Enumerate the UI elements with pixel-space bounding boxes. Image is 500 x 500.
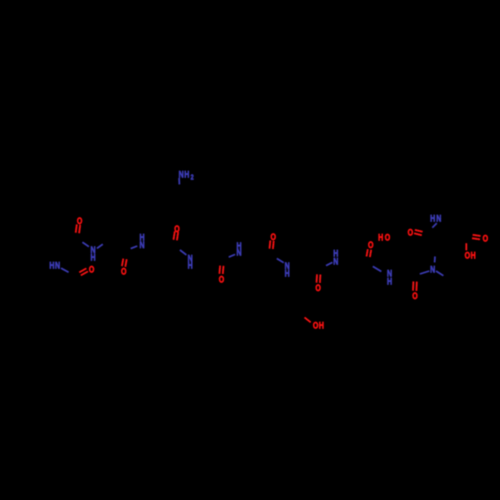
svg-text:O: O	[412, 290, 418, 301]
wire N1-C(=O) bond stub	[82, 242, 89, 247]
svg-text:H: H	[90, 252, 95, 263]
C=O double bond 6	[270, 240, 274, 249]
wire N10-C(=O) bond stub left	[420, 271, 430, 274]
wire N1-CH bond stub	[97, 244, 103, 248]
svg-text:O: O	[174, 223, 180, 234]
C=O double bond 10 (carboxyl)	[472, 235, 481, 240]
wire phenol C-OH bond stub	[305, 317, 311, 322]
svg-text:N: N	[55, 260, 60, 271]
wire N3-C(=O) bond stub	[131, 246, 138, 249]
svg-text:O: O	[408, 226, 414, 237]
svg-text:H: H	[319, 319, 324, 330]
wire carboxyl C-OH bond stub	[465, 243, 467, 250]
C=O double bond 11 (ring amide)	[413, 281, 417, 291]
svg-text:N: N	[430, 263, 435, 274]
svg-text:H: H	[430, 212, 435, 223]
C=O double bond 3	[122, 259, 127, 267]
C=O double bond 4	[174, 231, 179, 240]
svg-text:O: O	[77, 215, 83, 226]
wire N4-C(=O) bond stub	[180, 250, 187, 255]
svg-text:H: H	[184, 168, 189, 179]
wire N10-CH bond stub up	[434, 256, 436, 262]
C=O double bond 1	[76, 224, 81, 233]
svg-text:H: H	[387, 275, 392, 286]
wire N8-C(=O) bond stub	[373, 266, 382, 271]
svg-text:N: N	[236, 246, 241, 257]
svg-text:H: H	[378, 232, 383, 243]
wire N10-CH2 bond stub right	[436, 271, 443, 276]
svg-text:O: O	[483, 232, 489, 243]
svg-text:O: O	[465, 249, 471, 260]
wire N5-C(=O) bond stub	[229, 254, 235, 257]
svg-text:N: N	[436, 212, 441, 223]
svg-text:N: N	[333, 255, 338, 266]
svg-text:O: O	[368, 239, 374, 250]
C=O double bond 8	[367, 249, 372, 257]
wire N9-C(=O) bond stub	[432, 223, 437, 228]
svg-text:O: O	[219, 273, 225, 284]
svg-text:H: H	[49, 260, 54, 271]
svg-text:O: O	[313, 319, 319, 330]
C=O double bond 2	[79, 268, 88, 275]
svg-text:N: N	[179, 168, 184, 179]
C=O double bond 5	[219, 266, 223, 274]
svg-text:O: O	[385, 232, 391, 243]
svg-text:O: O	[89, 263, 95, 274]
svg-text:2: 2	[191, 174, 194, 182]
svg-text:O: O	[315, 282, 321, 293]
wire N7-C(=O) bond stub	[326, 262, 332, 265]
C=O double bond 7	[317, 274, 321, 283]
wire N-CH2 bond stub (lysine amine)	[178, 178, 180, 185]
wire N2-C(=O) bond stub	[61, 268, 69, 272]
C=O double bond 9	[414, 230, 423, 235]
svg-text:H: H	[188, 260, 193, 271]
svg-text:N: N	[139, 239, 144, 250]
svg-text:H: H	[471, 250, 476, 261]
svg-text:H: H	[285, 267, 290, 278]
svg-text:O: O	[121, 265, 127, 276]
svg-text:O: O	[270, 231, 276, 242]
wire N6-C(=O) bond stub	[277, 259, 284, 263]
